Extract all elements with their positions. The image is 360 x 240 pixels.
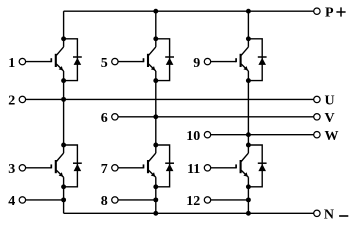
svg-text:N: N [324,208,334,223]
transistor Q3 (IGBT) [144,47,156,71]
wire: W-phase lower emitter drop [247,177,249,213]
diode D6 (freewheel) [248,145,266,187]
junction: Q6 emitter/diode [246,184,251,189]
wire: gate lead terminal 11 [211,167,236,169]
wire: W-phase midpoint bus [247,71,249,153]
junction: Q5 emitter/diode [246,78,251,83]
junction: Q2 collector/diode tee [61,143,66,148]
wire: U-phase lower emitter drop [63,177,65,213]
wire: emitter sense line (terminal 8) [118,199,156,201]
terminal 2 (emitter Q1) [19,96,25,102]
terminal 7 (gate Q4) [112,165,118,171]
wire: gate lead terminal 7 [118,167,143,169]
terminal N- (DC bus negative) [314,210,320,216]
terminal W (phase output) [314,132,320,138]
junction: top rail / column 3 [246,9,251,14]
terminal 4 (emitter Q2) [19,197,25,203]
junction: phase V tap [153,114,158,119]
wire: phase U line (terminal 2) [26,98,314,100]
terminal 8 (emitter Q4) [112,197,118,203]
terminal 5 (gate Q3) [112,58,118,64]
junction: bottom rail / column 3 [246,211,251,216]
junction: phase U tap [61,97,66,102]
svg-text:2: 2 [8,94,15,109]
wire: phase W line (terminal 10) [211,134,314,136]
junction: Q1 emitter/diode [61,78,66,83]
svg-text:P: P [325,5,334,20]
diode D2 (freewheel) [64,145,82,187]
wire: N- bottom rail [64,212,314,214]
wire: gate lead terminal 5 [118,61,143,63]
wire: gate lead terminal 3 [26,167,52,169]
wire: gate lead terminal 9 [211,61,236,63]
label N- minus sign [339,215,348,217]
wire: V-phase upper collector riser [155,11,157,47]
wire: emitter sense line (terminal 4) [26,199,64,201]
diode D3 (freewheel) [156,39,174,81]
wire: V-phase lower emitter drop [155,177,157,213]
wire: U-phase midpoint bus [63,71,65,153]
wire: U-phase upper collector riser [63,11,65,47]
wire: W-phase upper collector riser [247,11,249,47]
svg-text:3: 3 [8,162,15,177]
svg-text:11: 11 [187,162,200,177]
transistor Q5 (IGBT) [236,47,248,71]
svg-text:4: 4 [8,194,15,209]
transistor Q2 (IGBT) [51,153,63,177]
junction: Q4 emitter/diode [153,184,158,189]
transistor Q6 (IGBT) [236,153,248,177]
terminal 12 (emitter Q6) [204,197,210,203]
terminal 10 (emitter Q5) [204,132,210,138]
svg-text:10: 10 [186,129,200,144]
svg-text:12: 12 [186,194,200,209]
label P+ plus sign [336,7,345,16]
junction: Q5 collector/diode tee [246,36,251,41]
terminal 1 (gate Q1) [19,58,25,64]
wire: P+ top rail [64,10,314,12]
diode D5 (freewheel) [248,39,266,81]
svg-text:V: V [325,111,335,126]
junction: Q3 collector/diode tee [153,36,158,41]
transistor Q4 (IGBT) [144,153,156,177]
svg-text:U: U [325,94,335,109]
svg-text:5: 5 [101,56,108,71]
diode D1 (freewheel) [64,39,82,81]
svg-text:1: 1 [8,56,15,71]
terminal 6 (emitter Q3) [112,114,118,120]
terminal P+ (DC bus positive) [314,8,320,14]
svg-text:W: W [325,129,339,144]
wire: emitter sense line (terminal 12) [211,199,249,201]
svg-text:8: 8 [101,194,108,209]
transistor Q1 (IGBT) [51,47,63,71]
junction: Q1 collector/diode tee [61,36,66,41]
junction: bottom rail / column 2 [153,211,158,216]
terminal V (phase output) [314,114,320,120]
svg-text:6: 6 [101,111,108,126]
junction: emitter sense tap 4 [61,197,66,202]
junction: emitter sense tap 12 [246,197,251,202]
wire: phase V line (terminal 6) [118,116,314,118]
wire: gate lead terminal 1 [26,61,52,63]
junction: Q2 emitter/diode [61,184,66,189]
junction: phase W tap [246,132,251,137]
wire: V-phase midpoint bus [155,71,157,153]
terminal 3 (gate Q2) [19,165,25,171]
svg-text:9: 9 [193,56,200,71]
junction: emitter sense tap 8 [153,197,158,202]
svg-text:7: 7 [101,162,108,177]
junction: top rail / column 2 [153,9,158,14]
junction: Q6 collector/diode tee [246,143,251,148]
terminal 9 (gate Q5) [204,58,210,64]
terminal U (phase output) [314,96,320,102]
junction: Q3 emitter/diode [153,78,158,83]
terminal 11 (gate Q6) [204,165,210,171]
junction: Q4 collector/diode tee [153,143,158,148]
diode D4 (freewheel) [156,145,174,187]
